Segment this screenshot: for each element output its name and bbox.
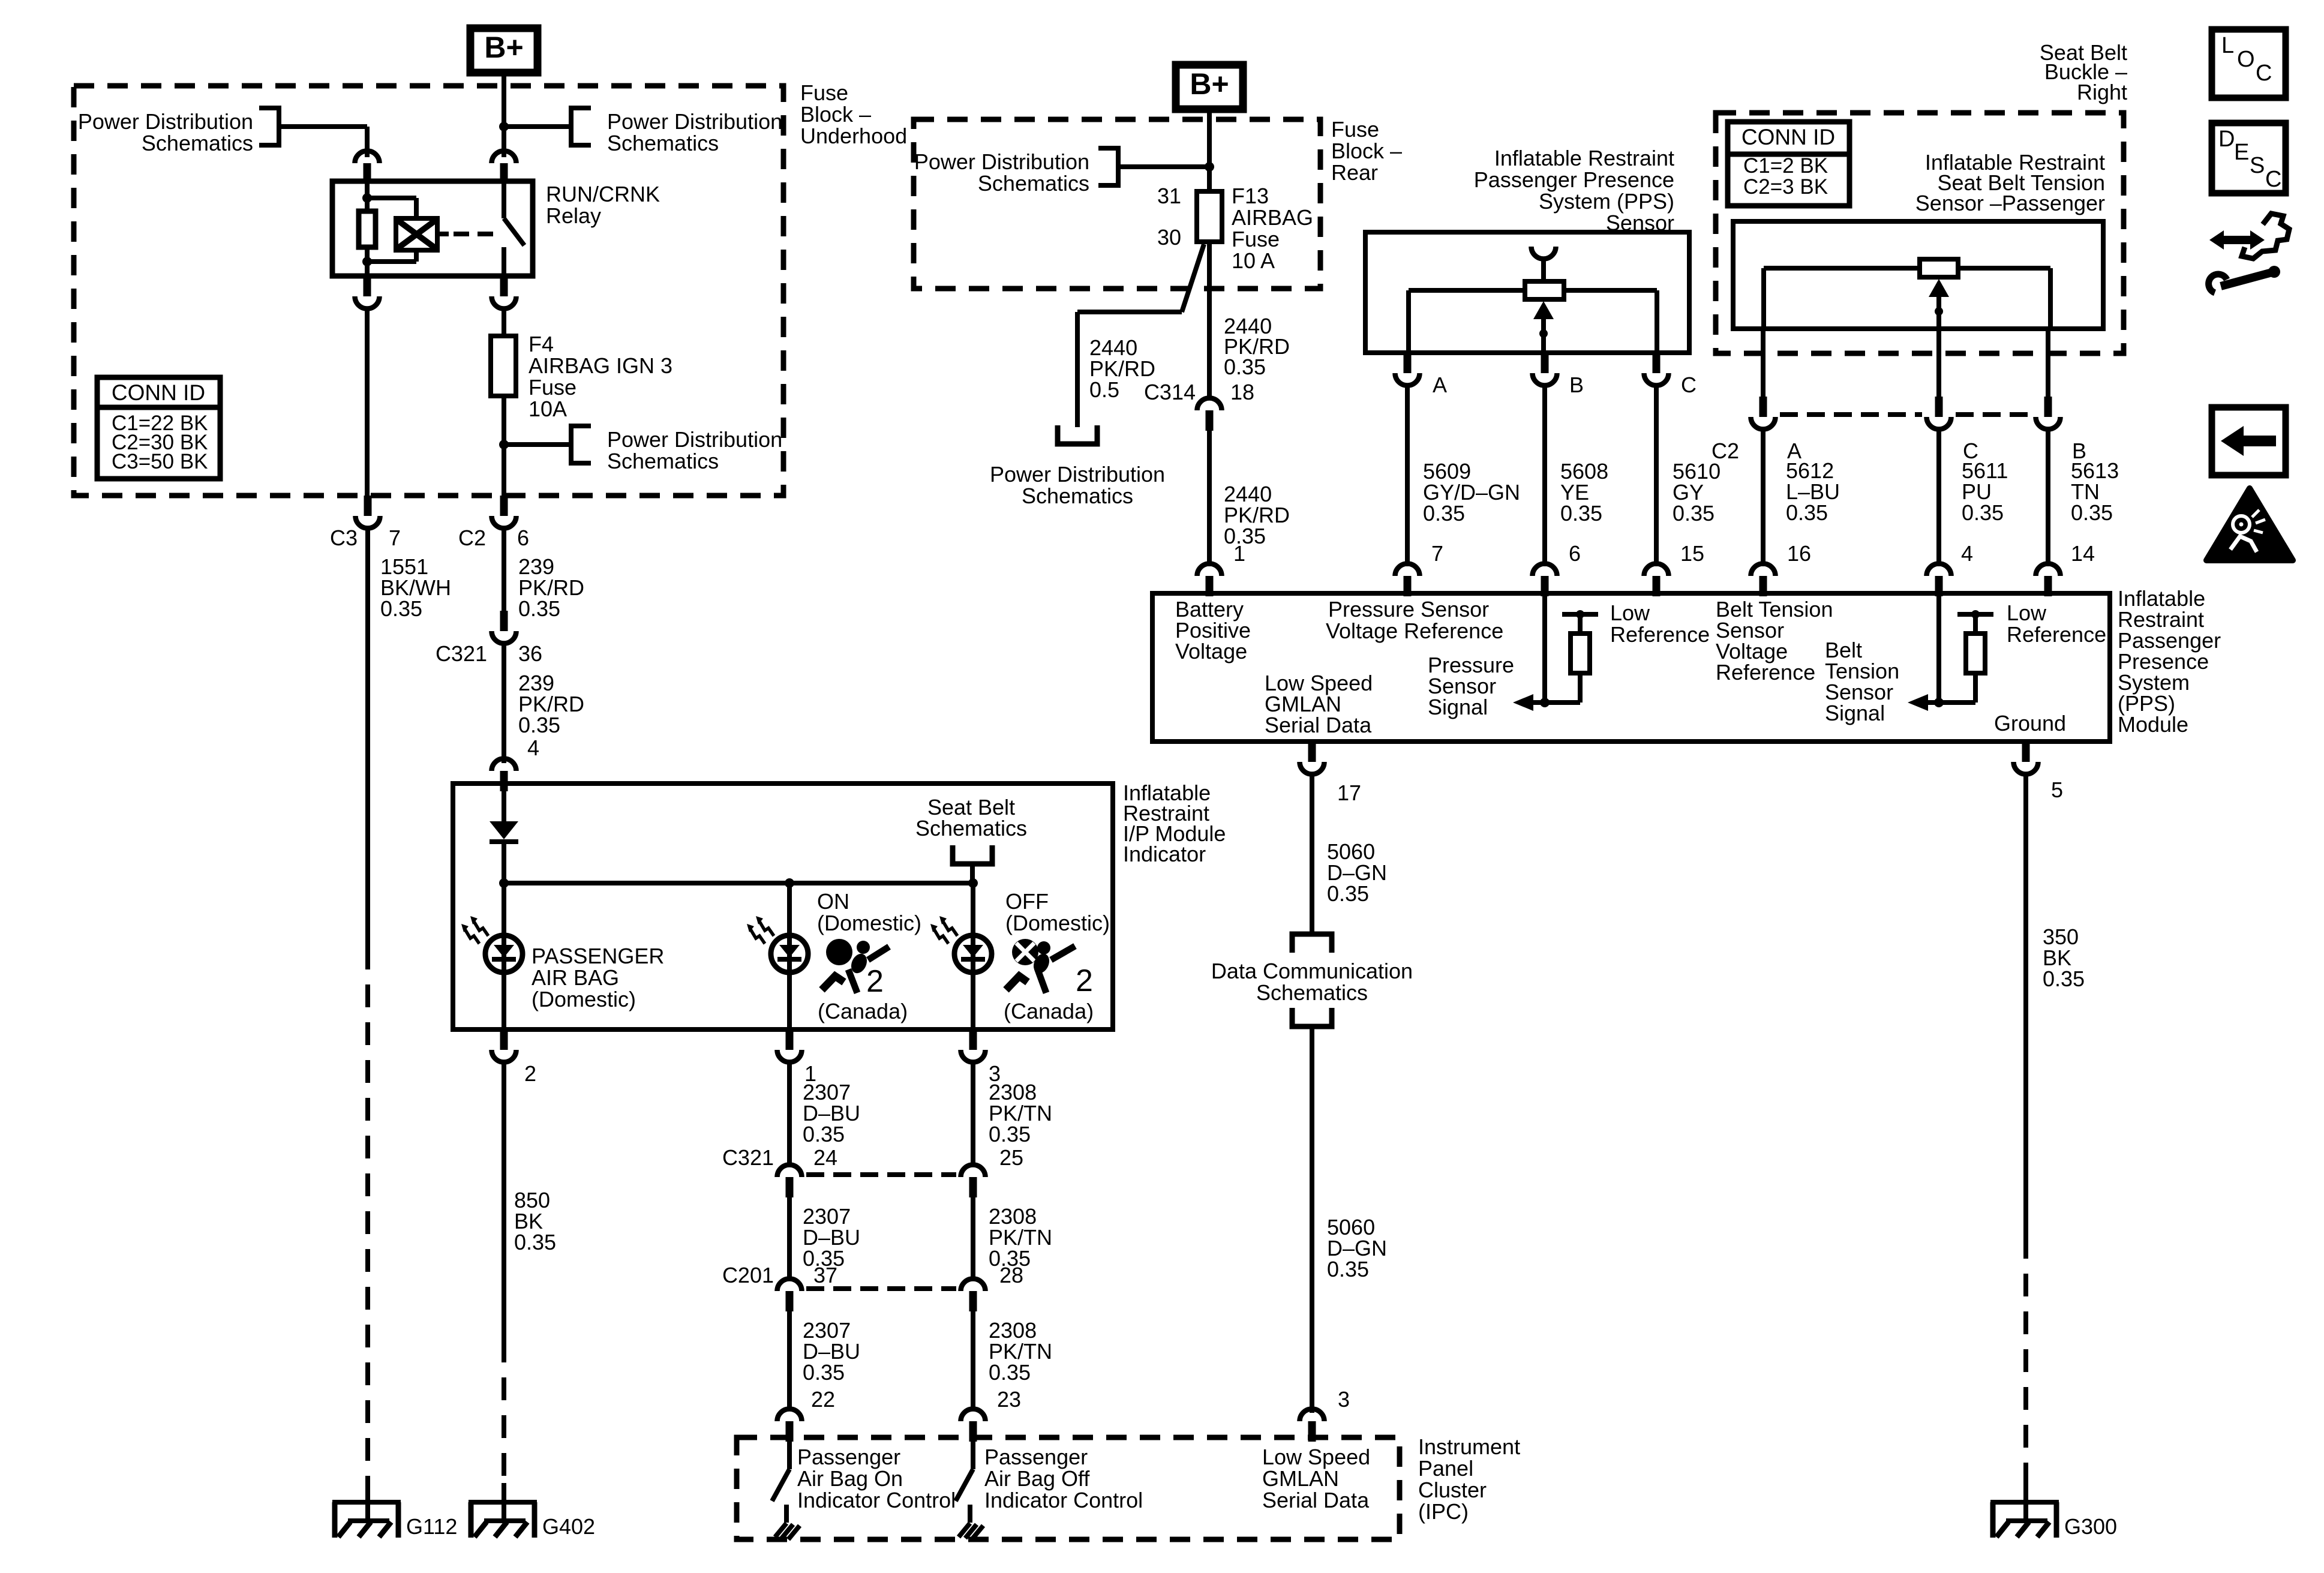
- connector C201 pin 28: [961, 1279, 986, 1312]
- label wire 2308 PK/TN 0.35 (1): [989, 1080, 1052, 1146]
- wire 350 BK (dashed): [2023, 1236, 2028, 1483]
- label wire 2307 D-BU 0.35 (3): [803, 1318, 860, 1385]
- dashed connector link buckle C2 (C-B): [1956, 412, 2031, 417]
- svg-text:0.35: 0.35: [1224, 355, 1266, 379]
- icon warning triangle (airbag caution): [2206, 488, 2293, 560]
- belt tension sensor signal arrow: [1908, 694, 1975, 711]
- svg-text:C321: C321: [436, 641, 487, 666]
- wire 5609 GY/D-GN: [1405, 386, 1410, 566]
- wire junction to bracket: [504, 442, 571, 447]
- svg-text:15: 15: [1680, 541, 1704, 566]
- svg-text:Indicator Control: Indicator Control: [797, 1488, 956, 1512]
- resistor pressure low reference: [1562, 614, 1598, 703]
- svg-text:Power Distribution: Power Distribution: [607, 109, 782, 134]
- label wire 2440 PK/RD 0.35 (upper): [1224, 314, 1290, 379]
- svg-text:C201: C201: [722, 1263, 774, 1287]
- svg-text:17: 17: [1337, 781, 1361, 805]
- connector buckle C2 pin A: [1751, 397, 1776, 430]
- wire 2440 PK/RD to module pin 1: [1207, 430, 1212, 566]
- wire coil to switch (dashed actuation link): [437, 232, 498, 236]
- connector pin 4 into indicator module: [492, 759, 517, 792]
- svg-text:10 A: 10 A: [1232, 248, 1275, 273]
- label wire 5610 GY 0.35: [1673, 459, 1721, 526]
- connector C2 pin 6: [492, 496, 517, 528]
- svg-text:Low: Low: [1610, 601, 1650, 625]
- wire bus to PASSENGER AIR BAG LED: [502, 883, 506, 1029]
- svg-text:6: 6: [517, 526, 529, 550]
- relay switch contacts: [504, 181, 524, 276]
- module internal pin 6 line: [1542, 593, 1547, 703]
- svg-text:Schematics: Schematics: [607, 131, 719, 155]
- svg-text:Voltage Reference: Voltage Reference: [1326, 619, 1503, 643]
- node pin4 junction: [1934, 698, 1944, 707]
- svg-text:(Domestic): (Domestic): [1005, 911, 1110, 935]
- wire 1551 BK/WH (dashed part): [365, 947, 370, 1483]
- node bus at passenger LED: [499, 878, 509, 888]
- wire 2308 PK/TN segment 1: [971, 1062, 975, 1164]
- svg-text:Power Distribution: Power Distribution: [990, 462, 1165, 487]
- connector module pin 7: [1395, 563, 1420, 596]
- svg-text:CONN ID: CONN ID: [112, 380, 205, 405]
- svg-text:0.35: 0.35: [989, 1360, 1031, 1385]
- label Low Reference (pressure): [1610, 601, 1710, 647]
- wire 2308 PK/TN segment 3: [971, 1310, 975, 1411]
- dashed connector link C321: [806, 1172, 956, 1177]
- wire 5060 D-GN (upper): [1310, 775, 1314, 934]
- svg-text:0.35: 0.35: [803, 1360, 845, 1385]
- svg-text:Ground: Ground: [1994, 711, 2066, 736]
- PPS sensor resistive track: [1409, 290, 1657, 353]
- label Inflatable Restraint Seat Belt Tension Sensor - Passenger: [1915, 150, 2105, 215]
- connector 85 relay output (coil): [355, 276, 380, 309]
- connector 86 into relay (coil side): [355, 151, 380, 184]
- svg-text:7: 7: [389, 526, 401, 550]
- svg-text:0.35: 0.35: [1327, 881, 1369, 906]
- off-page reference Power Distribution Schematics (top right of relay): [571, 108, 782, 155]
- Inflatable Restraint PPS Module box: [1152, 593, 2110, 742]
- icon service tool (arrow, part, wrench): [2209, 214, 2289, 293]
- connector module pin 15: [1644, 563, 1669, 596]
- svg-text:C: C: [1681, 373, 1697, 397]
- fuse F4 AIRBAG IGN 3: [491, 308, 516, 445]
- label Fuse Block - Rear: [1331, 117, 1402, 185]
- svg-text:2: 2: [1076, 963, 1093, 998]
- svg-text:Air Bag Off: Air Bag Off: [984, 1466, 1090, 1491]
- svg-text:(IPC): (IPC): [1418, 1499, 1469, 1524]
- wire branch diagonal to 2440 PK/RD 0.5: [1077, 244, 1204, 427]
- svg-text:Signal: Signal: [1428, 695, 1488, 719]
- svg-text:Reference: Reference: [2007, 622, 2106, 647]
- svg-text:C321: C321: [722, 1145, 774, 1170]
- label Inflatable Restraint I/P Module Indicator: [1123, 781, 1226, 866]
- svg-text:CONN ID: CONN ID: [1742, 125, 1835, 149]
- label Belt Tension Sensor Signal: [1825, 638, 1899, 725]
- connector module pin 6: [1533, 563, 1557, 596]
- wire relay coil output down to box edge: [365, 308, 370, 496]
- node junction under F4: [499, 440, 509, 449]
- svg-text:0.35: 0.35: [518, 713, 560, 737]
- svg-text:Passenger: Passenger: [797, 1445, 900, 1469]
- wire 2307 D-BU segment 1: [787, 1062, 792, 1164]
- svg-text:Fuse: Fuse: [1232, 227, 1280, 251]
- connector C321 pin 36: [500, 611, 508, 631]
- svg-text:2: 2: [524, 1061, 536, 1086]
- CONN ID table (buckle): [1728, 122, 1849, 206]
- label Low Reference (belt): [2007, 601, 2106, 647]
- svg-text:G402: G402: [542, 1514, 595, 1539]
- label ON (Domestic): [817, 889, 921, 935]
- svg-text:0.5: 0.5: [1089, 377, 1119, 402]
- label Battery Positive Voltage: [1175, 597, 1251, 664]
- connector module pin 1: [1197, 563, 1222, 596]
- connector sensor pin C: [1644, 353, 1669, 386]
- wire coil top branch: [367, 198, 416, 220]
- wire 5613 TN: [2046, 430, 2050, 566]
- icon LOC box: [2212, 29, 2286, 98]
- svg-text:Sensor –Passenger: Sensor –Passenger: [1915, 191, 2105, 215]
- wire junction to Power Distribution bracket: [504, 124, 571, 129]
- svg-text:Right: Right: [2077, 80, 2127, 104]
- svg-text:F4: F4: [529, 332, 554, 356]
- icon back-arrow box: [2212, 407, 2286, 475]
- svg-text:Relay: Relay: [546, 203, 601, 228]
- connector pin 3 into IPC: [1300, 1409, 1325, 1442]
- wire 850 BK (solid): [502, 1062, 506, 1340]
- label wire 1551 BK/WH 0.35: [380, 554, 451, 621]
- svg-text:Block –: Block –: [1331, 139, 1402, 163]
- label Pressure Sensor Voltage Reference: [1326, 597, 1503, 643]
- wire bus to ON LED: [787, 883, 792, 1029]
- relay RUN/CRNK box: [332, 181, 533, 276]
- svg-text:Passenger Presence: Passenger Presence: [1474, 167, 1674, 192]
- svg-text:31: 31: [1157, 184, 1181, 208]
- svg-text:PASSENGER: PASSENGER: [532, 944, 664, 968]
- svg-text:A: A: [1433, 373, 1447, 397]
- label Seat Belt Buckle - Right: [2040, 40, 2127, 104]
- dashed box Seat Belt Buckle - Right: [1716, 113, 2124, 353]
- PPS sensor box: [1365, 232, 1689, 353]
- svg-text:Serial Data: Serial Data: [1262, 1488, 1370, 1512]
- label wire 5609 GY/D-GN 0.35: [1423, 459, 1520, 526]
- node bus at ON LED: [785, 878, 794, 888]
- wire B+ to junction: [502, 73, 506, 127]
- node relay coil bottom: [362, 257, 372, 266]
- label Inflatable Restraint Passenger Presence System (PPS) Sensor: [1474, 146, 1674, 235]
- off-page reference Power Distribution Schematics (under F4): [571, 426, 782, 473]
- ground G300: [1990, 1483, 2059, 1538]
- label Belt Tension Sensor Voltage Reference: [1716, 597, 1833, 685]
- connector pin 2 under indicator: [492, 1029, 517, 1062]
- label wire 2440 PK/RD 0.35 (lower): [1224, 482, 1290, 548]
- svg-text:0.35: 0.35: [803, 1122, 845, 1146]
- off-page reference Power Distribution Schematics (rear): [914, 148, 1118, 196]
- svg-text:O: O: [2237, 47, 2255, 72]
- svg-text:G112: G112: [406, 1514, 457, 1539]
- wire 2307 D-BU segment 2: [787, 1196, 792, 1278]
- wire 5608 YE: [1542, 386, 1547, 566]
- connector buckle pin B: [2036, 397, 2061, 430]
- svg-text:1: 1: [1233, 541, 1245, 566]
- ground G112: [332, 1483, 401, 1538]
- svg-text:(Domestic): (Domestic): [532, 987, 636, 1011]
- svg-text:Air Bag On: Air Bag On: [797, 1466, 903, 1491]
- connector pin 1 under indicator: [777, 1029, 802, 1062]
- label wire 5612 L-BU 0.35: [1786, 458, 1840, 525]
- svg-text:0.35: 0.35: [2071, 500, 2113, 525]
- PPS sensor wiper connector cup: [1532, 247, 1556, 259]
- resistor belt low reference: [1957, 614, 1993, 703]
- dashed connector link C201: [806, 1286, 956, 1291]
- svg-text:37: 37: [813, 1263, 837, 1287]
- icon DESC box: [2212, 123, 2286, 193]
- label wire 239 PK/RD 0.35 (upper): [518, 554, 584, 621]
- svg-text:16: 16: [1787, 541, 1811, 566]
- label Instrument Panel Cluster (IPC): [1418, 1434, 1520, 1524]
- belt tension sensor box: [1733, 221, 2103, 329]
- label Low Speed GMLAN Serial Data: [1265, 671, 1373, 737]
- relay internal wire coil-left: [365, 181, 370, 276]
- svg-text:Indicator Control: Indicator Control: [984, 1488, 1143, 1512]
- connector into relay (switch side): [492, 151, 517, 184]
- label wire 5611 PU 0.35: [1962, 458, 2008, 525]
- svg-text:23: 23: [997, 1387, 1021, 1412]
- svg-text:0.35: 0.35: [1327, 1257, 1369, 1281]
- svg-text:Schematics: Schematics: [915, 816, 1027, 840]
- label wire 2307 D-BU 0.35 (2): [803, 1204, 860, 1271]
- svg-text:B+: B+: [484, 31, 523, 64]
- resistor relay coil suppression: [359, 211, 376, 247]
- label RUN/CRNK Relay: [546, 182, 660, 228]
- label F13 AIRBAG Fuse 10 A: [1232, 184, 1313, 273]
- svg-text:Pressure Sensor: Pressure Sensor: [1328, 597, 1489, 622]
- svg-text:0.35: 0.35: [1560, 501, 1602, 526]
- svg-text:Cluster: Cluster: [1418, 1478, 1487, 1502]
- label PASSENGER AIR BAG (Domestic): [532, 944, 664, 1011]
- svg-text:Inflatable Restraint: Inflatable Restraint: [1494, 146, 1674, 170]
- belt tension sensor wiper arrow: [1929, 279, 1949, 329]
- svg-text:(Canada): (Canada): [818, 999, 908, 1023]
- svg-text:Power Distribution: Power Distribution: [607, 427, 782, 452]
- dashed box Instrument Panel Cluster: [737, 1437, 1400, 1539]
- wire B+ junction down to relay switch input: [502, 127, 506, 157]
- wire 850 BK (dashed): [502, 1340, 506, 1483]
- label wire 239 PK/RD 0.35 (lower): [518, 671, 584, 737]
- label F4 AIRBAG IGN 3 Fuse 10A: [529, 332, 672, 421]
- svg-text:30: 30: [1157, 225, 1181, 250]
- svg-text:Signal: Signal: [1825, 701, 1885, 725]
- svg-text:Reference: Reference: [1610, 622, 1710, 647]
- svg-text:F13: F13: [1232, 184, 1269, 208]
- label wire 2307 D-BU 0.35 (1): [803, 1080, 860, 1146]
- label wire 5060 D-GN 0.35 (lower): [1327, 1215, 1387, 1281]
- wire 2307 D-BU segment 3: [787, 1310, 792, 1411]
- LED ON indicator: [747, 916, 808, 972]
- wire junction to fuse F13: [1207, 167, 1212, 191]
- connector pin 23 into IPC: [961, 1409, 986, 1442]
- wire diode to bus: [502, 842, 506, 883]
- pressure sensor signal arrow: [1513, 694, 1580, 711]
- diode (indicator feed): [490, 821, 518, 842]
- power symbol B+ (left): [470, 28, 538, 73]
- svg-text:Instrument: Instrument: [1418, 1434, 1520, 1459]
- svg-text:ON: ON: [817, 889, 849, 914]
- svg-text:System (PPS): System (PPS): [1539, 189, 1674, 214]
- svg-text:6: 6: [1569, 541, 1581, 566]
- svg-text:0.35: 0.35: [989, 1122, 1031, 1146]
- node resistor top (pressure): [1576, 610, 1584, 619]
- power symbol B+ (rear): [1176, 65, 1243, 109]
- svg-text:C: C: [2256, 61, 2272, 86]
- label Passenger Air Bag Off Indicator Control: [984, 1445, 1143, 1512]
- wire 5610 GY: [1654, 386, 1659, 566]
- svg-text:B+: B+: [1190, 67, 1229, 101]
- svg-text:Panel: Panel: [1418, 1456, 1473, 1481]
- wire F4 junction to box edge: [502, 445, 506, 496]
- label wire 5613 TN 0.35: [2071, 458, 2119, 525]
- connector C321 pin 24: [777, 1164, 802, 1197]
- connector C321 pin 25: [961, 1164, 986, 1197]
- svg-text:7: 7: [1431, 541, 1443, 566]
- Inflatable Restraint I/P Module Indicator box: [453, 784, 1113, 1029]
- label wire 2308 PK/TN 0.35 (3): [989, 1318, 1052, 1385]
- svg-text:Passenger: Passenger: [984, 1445, 1088, 1469]
- svg-text:(Domestic): (Domestic): [817, 911, 921, 935]
- PPS sensor wiper arrow: [1533, 301, 1554, 353]
- connector sensor pin B: [1533, 353, 1557, 386]
- svg-text:AIRBAG: AIRBAG: [1232, 205, 1313, 230]
- module internal pin 4 line: [1936, 593, 1941, 703]
- connector module pin 4: [1927, 563, 1951, 596]
- svg-text:OFF: OFF: [1005, 889, 1049, 914]
- svg-text:2: 2: [866, 964, 884, 999]
- svg-text:Low Speed: Low Speed: [1262, 1445, 1370, 1469]
- connector pin 3 under indicator: [961, 1029, 986, 1062]
- wire 5612 L-BU: [1761, 430, 1765, 566]
- CONN ID table (underhood): [97, 377, 220, 479]
- wire buckle pin C stub: [1936, 329, 1941, 397]
- label module (right side): [2118, 586, 2221, 737]
- svg-text:14: 14: [2071, 541, 2095, 566]
- node resistor top (belt): [1971, 610, 1980, 619]
- svg-text:Voltage: Voltage: [1175, 639, 1247, 664]
- wire 350 BK (solid): [2023, 775, 2028, 1236]
- relay coil (box with X): [396, 218, 437, 250]
- wire bracket to junction (rear): [1118, 164, 1209, 169]
- svg-text:C2: C2: [1712, 439, 1739, 463]
- dashed box Fuse Block - Underhood: [74, 86, 783, 496]
- wire 239 PK/RD segment 2: [502, 644, 506, 763]
- svg-text:18: 18: [1230, 380, 1254, 404]
- svg-text:Rear: Rear: [1331, 160, 1378, 185]
- svg-text:36: 36: [518, 641, 542, 666]
- connector module pin 5: [2014, 742, 2038, 775]
- dashed connector link buckle C2 (A-C): [1780, 412, 1922, 417]
- svg-text:RUN/CRNK: RUN/CRNK: [546, 182, 660, 206]
- wire coil bottom branch: [367, 249, 416, 262]
- svg-text:G300: G300: [2064, 1514, 2117, 1539]
- wire bus to OFF LED: [971, 883, 975, 1029]
- svg-text:S: S: [2250, 153, 2265, 178]
- svg-text:E: E: [2234, 140, 2249, 165]
- wire 2308 PK/TN segment 2: [971, 1196, 975, 1278]
- label Pressure Sensor Signal: [1428, 653, 1514, 719]
- svg-text:Fuse: Fuse: [1331, 117, 1379, 142]
- svg-text:L: L: [2221, 33, 2234, 58]
- indicator internal bus: [504, 881, 973, 885]
- belt tension sensor resistive track: [1764, 268, 2050, 329]
- svg-text:Fuse: Fuse: [800, 80, 848, 105]
- svg-text:AIR BAG: AIR BAG: [532, 965, 619, 990]
- wire buckle pin B stub: [2046, 329, 2050, 397]
- svg-text:Serial Data: Serial Data: [1265, 713, 1372, 737]
- label wire 2440 PK/RD 0.5: [1089, 335, 1155, 402]
- PPS sensor wiper wire: [1541, 259, 1546, 281]
- svg-text:C2: C2: [458, 526, 486, 550]
- svg-text:Schematics: Schematics: [1022, 484, 1133, 508]
- connector C314 pin 18: [1197, 398, 1222, 431]
- connector C3 pin 7: [356, 496, 380, 528]
- connector 87 relay output (switch): [492, 276, 517, 309]
- svg-text:0.35: 0.35: [1786, 500, 1828, 525]
- dashed box Fuse Block - Rear: [914, 119, 1320, 289]
- wire below F13: [1207, 242, 1212, 397]
- wire 1551 BK/WH (solid part): [365, 529, 370, 947]
- connector pin 22 into IPC: [777, 1409, 802, 1442]
- svg-text:Schematics: Schematics: [1256, 980, 1368, 1005]
- label Fuse Block - Underhood: [800, 80, 907, 148]
- svg-text:B: B: [1569, 373, 1584, 397]
- wire bracket to relay coil input: [279, 127, 367, 157]
- svg-text:Schematics: Schematics: [142, 131, 253, 155]
- svg-text:Reference: Reference: [1716, 660, 1815, 685]
- svg-text:Fuse: Fuse: [529, 375, 577, 400]
- PPS sensor slider element: [1525, 281, 1564, 299]
- svg-text:5: 5: [2051, 778, 2063, 802]
- node bus at seat-belt feed: [968, 878, 978, 888]
- svg-text:25: 25: [999, 1145, 1023, 1170]
- wire 5060 D-GN (lower): [1310, 1026, 1314, 1413]
- label wire 350 BK 0.35: [2043, 924, 2085, 991]
- label wire 5608 YE 0.35: [1560, 459, 1608, 526]
- svg-text:0.35: 0.35: [1423, 501, 1465, 526]
- icon airbag ON (Canada) with 2: [822, 939, 889, 999]
- svg-text:Underhood: Underhood: [800, 124, 907, 148]
- LED OFF indicator: [930, 916, 992, 972]
- wire 5611 PU: [1936, 430, 1941, 566]
- svg-text:Indicator: Indicator: [1123, 842, 1206, 866]
- node junction under B+ (left): [499, 122, 509, 131]
- svg-text:4: 4: [527, 736, 539, 760]
- svg-text:4: 4: [1961, 541, 1973, 566]
- svg-text:Schematics: Schematics: [607, 449, 719, 473]
- svg-text:C2=3 BK: C2=3 BK: [1743, 175, 1828, 199]
- wire B+ rear to junction: [1207, 109, 1212, 167]
- connector module pin 16: [1751, 563, 1776, 596]
- connector buckle pin C: [1927, 397, 1951, 430]
- svg-text:GMLAN: GMLAN: [1262, 1466, 1339, 1491]
- label OFF (Domestic): [1005, 889, 1110, 935]
- off-page reference Data Communication Schematics: [1211, 934, 1413, 1026]
- switch Passenger Air Bag On Indicator Control: [772, 1442, 800, 1539]
- svg-text:0.35: 0.35: [2043, 966, 2085, 991]
- svg-text:0.35: 0.35: [518, 596, 560, 621]
- connector module pin 14: [2036, 563, 2061, 596]
- connector module pin 17: [1300, 742, 1325, 775]
- label Passenger Air Bag On Indicator Control: [797, 1445, 956, 1512]
- connector C201 pin 37: [777, 1279, 802, 1312]
- LED PASSENGER AIR BAG: [461, 916, 523, 972]
- svg-text:Power Distribution: Power Distribution: [914, 149, 1089, 174]
